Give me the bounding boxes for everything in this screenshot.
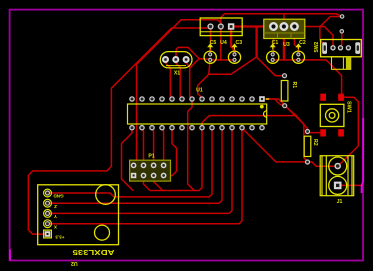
wire thick fork vertical from U4 square pad net (255, 27, 257, 58)
wire fork left leg down to U1 pad8 (198, 57, 257, 99)
wire U3 pad1 to C1 top (272, 28, 275, 54)
svg-text:C1: C1 (272, 40, 279, 46)
switch SW2 body (321, 40, 362, 57)
wire junction down-left to X1 pad3 stub (190, 59, 200, 69)
svg-text:R1: R1 (291, 82, 297, 89)
wire ring5 U2 X to U1 pad12 (48, 128, 243, 224)
net highlight pink right edge (362, 118, 364, 193)
resistor R2 pads (306, 130, 310, 165)
svg-text:GND: GND (53, 194, 64, 199)
wire thick U4 square pad to U3 pad1 (231, 25, 273, 27)
via above SW2 (340, 15, 344, 19)
IC U1 pin1 dot (260, 105, 264, 109)
svg-text:U4: U4 (220, 40, 227, 46)
IC U1 bottom row pads (130, 126, 264, 130)
header U3 body (264, 19, 305, 38)
wire P1 bottom pad exit (154, 176, 163, 191)
svg-text:ADXL335: ADXL335 (73, 248, 115, 257)
wire thick U4 square pad down to C3 top (231, 27, 234, 55)
capacitor C1 outline (267, 51, 279, 63)
module U2 ADXL335 outline (38, 185, 119, 245)
wire via1 to SW2 left pad (320, 17, 342, 49)
wire J1 bottom pad to right (338, 184, 362, 186)
wire X1 pad2 up over to junction (176, 47, 199, 59)
capacitor pads C5 C3 C1 C2 (209, 53, 300, 62)
svg-text:C2: C2 (299, 40, 306, 46)
wire fork right leg to R1 top pad (257, 57, 285, 76)
resistor R1 pads (283, 74, 287, 108)
IC U1 body (128, 104, 267, 124)
connector X1 pads (163, 57, 189, 62)
wire U3 middle pad up to top run (283, 14, 285, 27)
wire junction to C5 bottom (199, 58, 210, 61)
svg-text:C5: C5 (210, 40, 217, 46)
svg-text:C3: C3 (235, 40, 242, 46)
header P1 pads (131, 163, 166, 178)
wire SW1 top-right pad to J1 top pad along right edge (338, 97, 359, 166)
wire ring3 U2 Z to U1 pad10 (48, 128, 223, 203)
wire R2 top to SW1 bottom-left pad (308, 132, 324, 133)
wire X1 pad2 down to U1 (176, 60, 182, 100)
connector X1 outline (160, 52, 192, 68)
switch SW2 pads (322, 42, 360, 54)
module U2 pads (45, 191, 51, 237)
wire C5 bottom to C3 bottom horizontal (210, 59, 235, 61)
capacitor C2 outline (292, 51, 304, 63)
wire U1 top pad7 through body down bundle (188, 99, 194, 190)
wire C5 bottom pad down to junction (209, 60, 210, 74)
wire via2 to SW2 middle pad (341, 31, 342, 48)
wire U1 pin1 to R1 bottom pad (262, 99, 285, 106)
net highlight pink bottom-left edge (9, 250, 11, 261)
resistor R1 body (281, 81, 288, 102)
svg-text:U3: U3 (283, 42, 290, 48)
via above SW2 second (340, 30, 344, 34)
IC U1 pin1 stub (266, 98, 269, 100)
wire P1 left wrap from U1 pad1 (122, 128, 134, 191)
IC U1 top row pads (130, 96, 265, 102)
wire ring4 U2 Y to U1 pad11 (48, 128, 233, 213)
connector J1 pads (334, 163, 342, 189)
wire R1 bottom to R2 top (285, 106, 308, 132)
capacitor C3 outline (228, 51, 240, 63)
svg-text:Z: Z (54, 204, 57, 209)
svg-text:SW2: SW2 (314, 41, 320, 52)
wire P1 top pad stubs to U1 (142, 128, 144, 165)
svg-text:R2: R2 (312, 139, 318, 146)
resistor R2 body (304, 136, 311, 156)
svg-text:X1: X1 (174, 71, 180, 77)
connector J1 outline (320, 156, 354, 196)
wire C1 bottom to C2 bottom (273, 59, 299, 61)
wire P1 inner hook (138, 169, 144, 176)
module U2 pad rings (44, 189, 52, 197)
header P1 body (130, 160, 171, 181)
wire R2 bottom to J1 top pad (308, 162, 338, 166)
capacitor C5 outline (204, 51, 216, 63)
regulator U4 pads (208, 23, 234, 29)
svg-text:SW1: SW1 (346, 101, 352, 113)
svg-text:J1: J1 (337, 199, 343, 205)
svg-text:+3.3: +3.3 (55, 235, 65, 240)
wire U4 pad1 down to C5 top (209, 27, 211, 55)
regulator U4 outline (200, 18, 242, 36)
wire U1 pin1 to R2 bottom pad (262, 99, 308, 162)
wire U1 pad down right of P1 into P1 pad4 (164, 128, 177, 176)
wire U4 pad2 down between caps (220, 27, 222, 61)
wire ring1 P1 pad to U1 pad8 (144, 116, 296, 191)
wire U3 pad3 to C2 top (294, 28, 298, 54)
wire X1 pad1 down to U1 (166, 60, 173, 100)
wire U3 pad3 right to SW2 small pad (294, 27, 333, 48)
svg-text:U2: U2 (71, 260, 78, 266)
header U3 pads (270, 23, 298, 30)
wire top run from U4 pad2 to via near SW2 (221, 14, 342, 27)
switch SW1 body (320, 104, 344, 126)
svg-text:Y: Y (54, 214, 57, 219)
wire from U4 pad2 down-left through U1 to P1 pad1 (134, 20, 221, 166)
wire thick U3 middle pad down (283, 27, 285, 60)
wire X1 pad3 down to U1 (186, 60, 192, 100)
wire ring2 U2 GND to U1 pad9 (48, 128, 213, 197)
wire C2 bottom to SW1 top-right pad (298, 60, 341, 94)
switch SW1 smd pads (320, 94, 344, 137)
svg-text:P1: P1 (148, 154, 154, 160)
wire U1 pad12 to R2 bottom (242, 128, 308, 162)
wire +3.3V long run from U4 pad1 to U2 +3.3 pad (28, 27, 211, 235)
svg-text:U1: U1 (196, 88, 203, 94)
